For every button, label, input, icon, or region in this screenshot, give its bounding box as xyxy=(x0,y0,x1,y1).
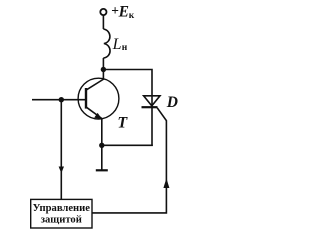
wire emitter down xyxy=(101,119,103,146)
svg-text:E: E xyxy=(118,3,129,20)
arrow up on gate wire xyxy=(163,178,169,188)
wire xyxy=(102,144,153,146)
node base junction xyxy=(59,97,64,102)
transistor T xyxy=(78,78,119,119)
wire base lead xyxy=(32,99,86,101)
control box xyxy=(31,199,92,228)
svg-text:н: н xyxy=(122,43,128,53)
ground xyxy=(101,145,103,170)
wire xyxy=(102,58,104,79)
terminal +Ek xyxy=(100,9,106,15)
arrow down on control wire xyxy=(59,167,64,174)
svg-text:Управление: Управление xyxy=(33,203,91,214)
wire xyxy=(102,15,104,29)
node collector junction xyxy=(101,67,106,72)
inductor Ln xyxy=(103,29,110,58)
thyristor D xyxy=(142,96,161,146)
node emitter junction xyxy=(99,143,104,148)
wire gate xyxy=(92,108,166,213)
wire xyxy=(103,70,152,97)
svg-text:D: D xyxy=(166,94,178,111)
svg-text:T: T xyxy=(117,115,128,132)
svg-text:L: L xyxy=(112,36,122,53)
svg-text:защитой: защитой xyxy=(41,215,82,226)
wire to control box xyxy=(60,100,62,200)
svg-text:к: к xyxy=(129,11,135,21)
